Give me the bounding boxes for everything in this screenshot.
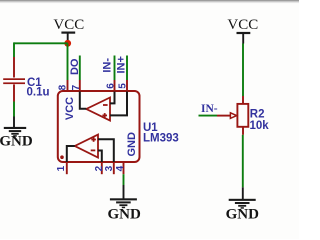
svg-text:IN+: IN+ [116,56,128,73]
power rail VCC (right) [227,17,258,44]
junction dot [64,40,71,47]
op-amp U1 body [58,91,140,162]
svg-text:7: 7 [71,84,82,90]
svg-text:4: 4 [115,165,126,171]
wire net DO to pin 7 [79,56,81,81]
pin 5 stub [126,80,128,92]
pin 7 stub [79,80,81,92]
svg-text:DO: DO [69,58,81,75]
comparator A triangle [86,98,110,121]
pin 8 stub [67,80,69,92]
svg-text:GND: GND [126,132,138,157]
svg-text:IN-: IN- [102,58,114,73]
svg-text:0.1u: 0.1u [27,87,50,99]
wire R2 to GND [242,135,244,188]
pin 3 stub [113,162,115,174]
comparator B triangle [75,135,98,158]
svg-text:3: 3 [104,165,115,171]
wire pin 5 to non-inverting input A [110,92,127,116]
svg-text:R2: R2 [250,109,265,121]
pin 4 stub [123,162,125,174]
svg-text:IN-: IN- [201,103,218,115]
svg-text:VCC: VCC [227,17,258,33]
wire net IN- [199,115,218,117]
svg-text:GND: GND [0,133,33,149]
wire VCC to R2 [242,44,244,97]
ground GND (middle) [108,185,142,222]
ground GND (left) [0,117,33,150]
wire VCC horizontal [14,42,68,44]
ground GND (right) [226,187,260,222]
wire pin 7 to output A [80,92,87,109]
capacitor C1 [3,57,25,102]
svg-text:10k: 10k [250,120,270,132]
svg-text:6: 6 [106,83,117,89]
trimmer R2 [217,96,248,135]
pin 6 stub [114,80,116,92]
wire junction to pin 8 [67,43,69,80]
pin 1 stub [66,162,68,174]
top window edge [0,0,299,3]
wire pin 3 to non-inverting input B [98,139,114,162]
power rail VCC (left) [53,17,84,43]
pin 2 stub [101,162,103,174]
svg-text:VCC: VCC [64,97,76,120]
wire C1 to GND [13,102,15,117]
svg-text:VCC: VCC [53,17,84,33]
wire pin 6 to inverting input A [110,92,115,104]
wire pin 2 to inverting input B [98,151,102,163]
wire VCC down to C1 [13,42,15,57]
svg-text:5: 5 [118,83,129,89]
marker dot pin 1 [60,155,64,159]
wire net IN- to pin 6 [114,56,116,81]
svg-text:GND: GND [108,206,142,222]
svg-text:1: 1 [56,165,67,171]
wire net IN+ to pin 5 [126,56,128,81]
svg-text:GND: GND [226,206,260,222]
wire output B to pin 1 [67,146,75,162]
wire pin 4 to GND [123,174,125,185]
svg-text:LM393: LM393 [143,133,179,145]
svg-text:8: 8 [58,84,69,90]
